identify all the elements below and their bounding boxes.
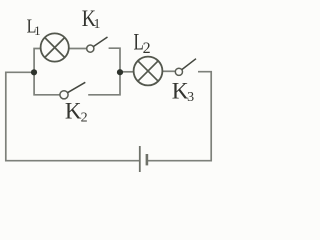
battery: short plate bbox=[146, 154, 149, 165]
wire: node B to lamp L2 bbox=[120, 71, 134, 73]
svg-text:1: 1 bbox=[34, 23, 41, 38]
wire: K1 fixed contact, corner, vertical through node B, K2 fixed contact bbox=[88, 48, 120, 95]
svg-text:2: 2 bbox=[143, 40, 151, 57]
svg-text:K: K bbox=[65, 98, 82, 124]
node B junction dot bbox=[117, 69, 123, 75]
wire: lamp L1 to K1 bbox=[69, 48, 87, 50]
switch K3 lever bbox=[182, 59, 196, 70]
switch K1 pivot bbox=[87, 45, 94, 52]
switch K1 lever bbox=[93, 37, 107, 47]
node A junction dot bbox=[31, 69, 37, 75]
switch K3 pivot bbox=[175, 68, 182, 75]
switch K2 pivot bbox=[60, 91, 68, 99]
switch K2 lever bbox=[68, 82, 86, 92]
wire: node A to left rail, down left rail, bottom wire to battery bbox=[6, 72, 139, 160]
svg-text:3: 3 bbox=[187, 90, 194, 105]
wire: battery to right rail, up right rail, to K3 fixed contact bbox=[148, 72, 211, 161]
battery: long plate bbox=[139, 146, 141, 172]
lamp L1 bbox=[41, 33, 69, 61]
wire: lamp L2 to K3 bbox=[163, 70, 176, 72]
wire: L1 left stub, left vertical, K2 branch bottom-left bbox=[34, 49, 60, 95]
lamp L2 bbox=[134, 57, 163, 86]
svg-text:1: 1 bbox=[94, 16, 101, 31]
svg-text:2: 2 bbox=[81, 111, 88, 126]
